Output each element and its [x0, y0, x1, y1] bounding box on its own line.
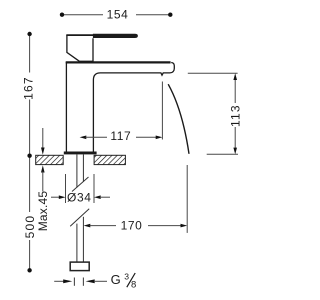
svg-text:167: 167 [21, 76, 35, 100]
faucet handle base [67, 35, 93, 61]
dimension O34 extension line right [93, 174, 95, 203]
pipe connector nut G3/8 [70, 262, 89, 271]
dimension 113 top reference line [188, 72, 238, 74]
dimension Max.45 upper arrow [42, 128, 44, 149]
faucet handle lever top segment [66, 34, 93, 36]
dimension O34 extension line left [65, 174, 67, 203]
dimension O34 left arrow [51, 196, 60, 198]
dimension 170 extension line [186, 165, 188, 233]
svg-text:500: 500 [23, 215, 37, 239]
dimension 154 dot left [60, 13, 64, 17]
dimension 113 bottom arrow [233, 148, 237, 155]
svg-text:8: 8 [131, 280, 136, 291]
pipe break slash S1 [72, 177, 89, 192]
svg-text:G: G [111, 272, 121, 287]
dimension 113 bottom reference line [207, 153, 238, 155]
supply pipe upper right line [82, 155, 84, 182]
pipe break slash S2 [70, 209, 89, 226]
dimension 117 left arrow [80, 136, 87, 140]
dimension G3/8 right arrow [86, 279, 95, 283]
spout top thick line [66, 61, 171, 63]
dimension 167/500 dot middle [27, 154, 31, 158]
supply pipe upper left line [76, 155, 78, 188]
dimension O34 right arrow [94, 195, 101, 199]
spout right cap, underside with outlet notch, body right edge [93, 63, 174, 152]
dimension 113 vertical line [234, 79, 236, 148]
countertop left hatched band [36, 155, 64, 164]
dimension 154 line right [136, 14, 170, 16]
water stream curve [168, 84, 189, 154]
svg-text:154: 154 [107, 7, 129, 21]
dimension 500 dot bottom [27, 268, 31, 272]
dimension G3/8 tick left [73, 278, 75, 286]
dimension Max.45 lower arrow [41, 165, 45, 172]
dimension 170 right arrow [148, 225, 181, 227]
dimension 167 dot top [27, 32, 31, 36]
dimension 117 right arrow [136, 136, 156, 138]
svg-text:117: 117 [110, 129, 131, 143]
countertop right hatched band [94, 155, 125, 164]
svg-text:Max.45: Max.45 [36, 191, 50, 232]
dimension 154 line left [62, 14, 103, 16]
svg-text:3: 3 [124, 271, 129, 281]
body left edge [65, 62, 67, 152]
dimension 154 dot right [168, 13, 172, 17]
dimension 117 extension line [161, 82, 163, 140]
dimension 170 left arrow [84, 224, 91, 228]
dimension 113 top arrow [233, 73, 237, 80]
supply pipe lower right line [82, 217, 84, 262]
svg-text:113: 113 [228, 104, 242, 127]
dimension G3/8 left arrow [54, 280, 64, 282]
dimension 167/500 vertical line [29, 34, 31, 270]
mounting base plate [64, 152, 97, 155]
svg-text:Ø34: Ø34 [67, 190, 91, 204]
svg-text:170: 170 [121, 219, 143, 233]
supply pipe lower left line [76, 224, 78, 263]
faucet handle lever bar [93, 34, 138, 38]
dimension G3/8 tick right [82, 278, 84, 286]
